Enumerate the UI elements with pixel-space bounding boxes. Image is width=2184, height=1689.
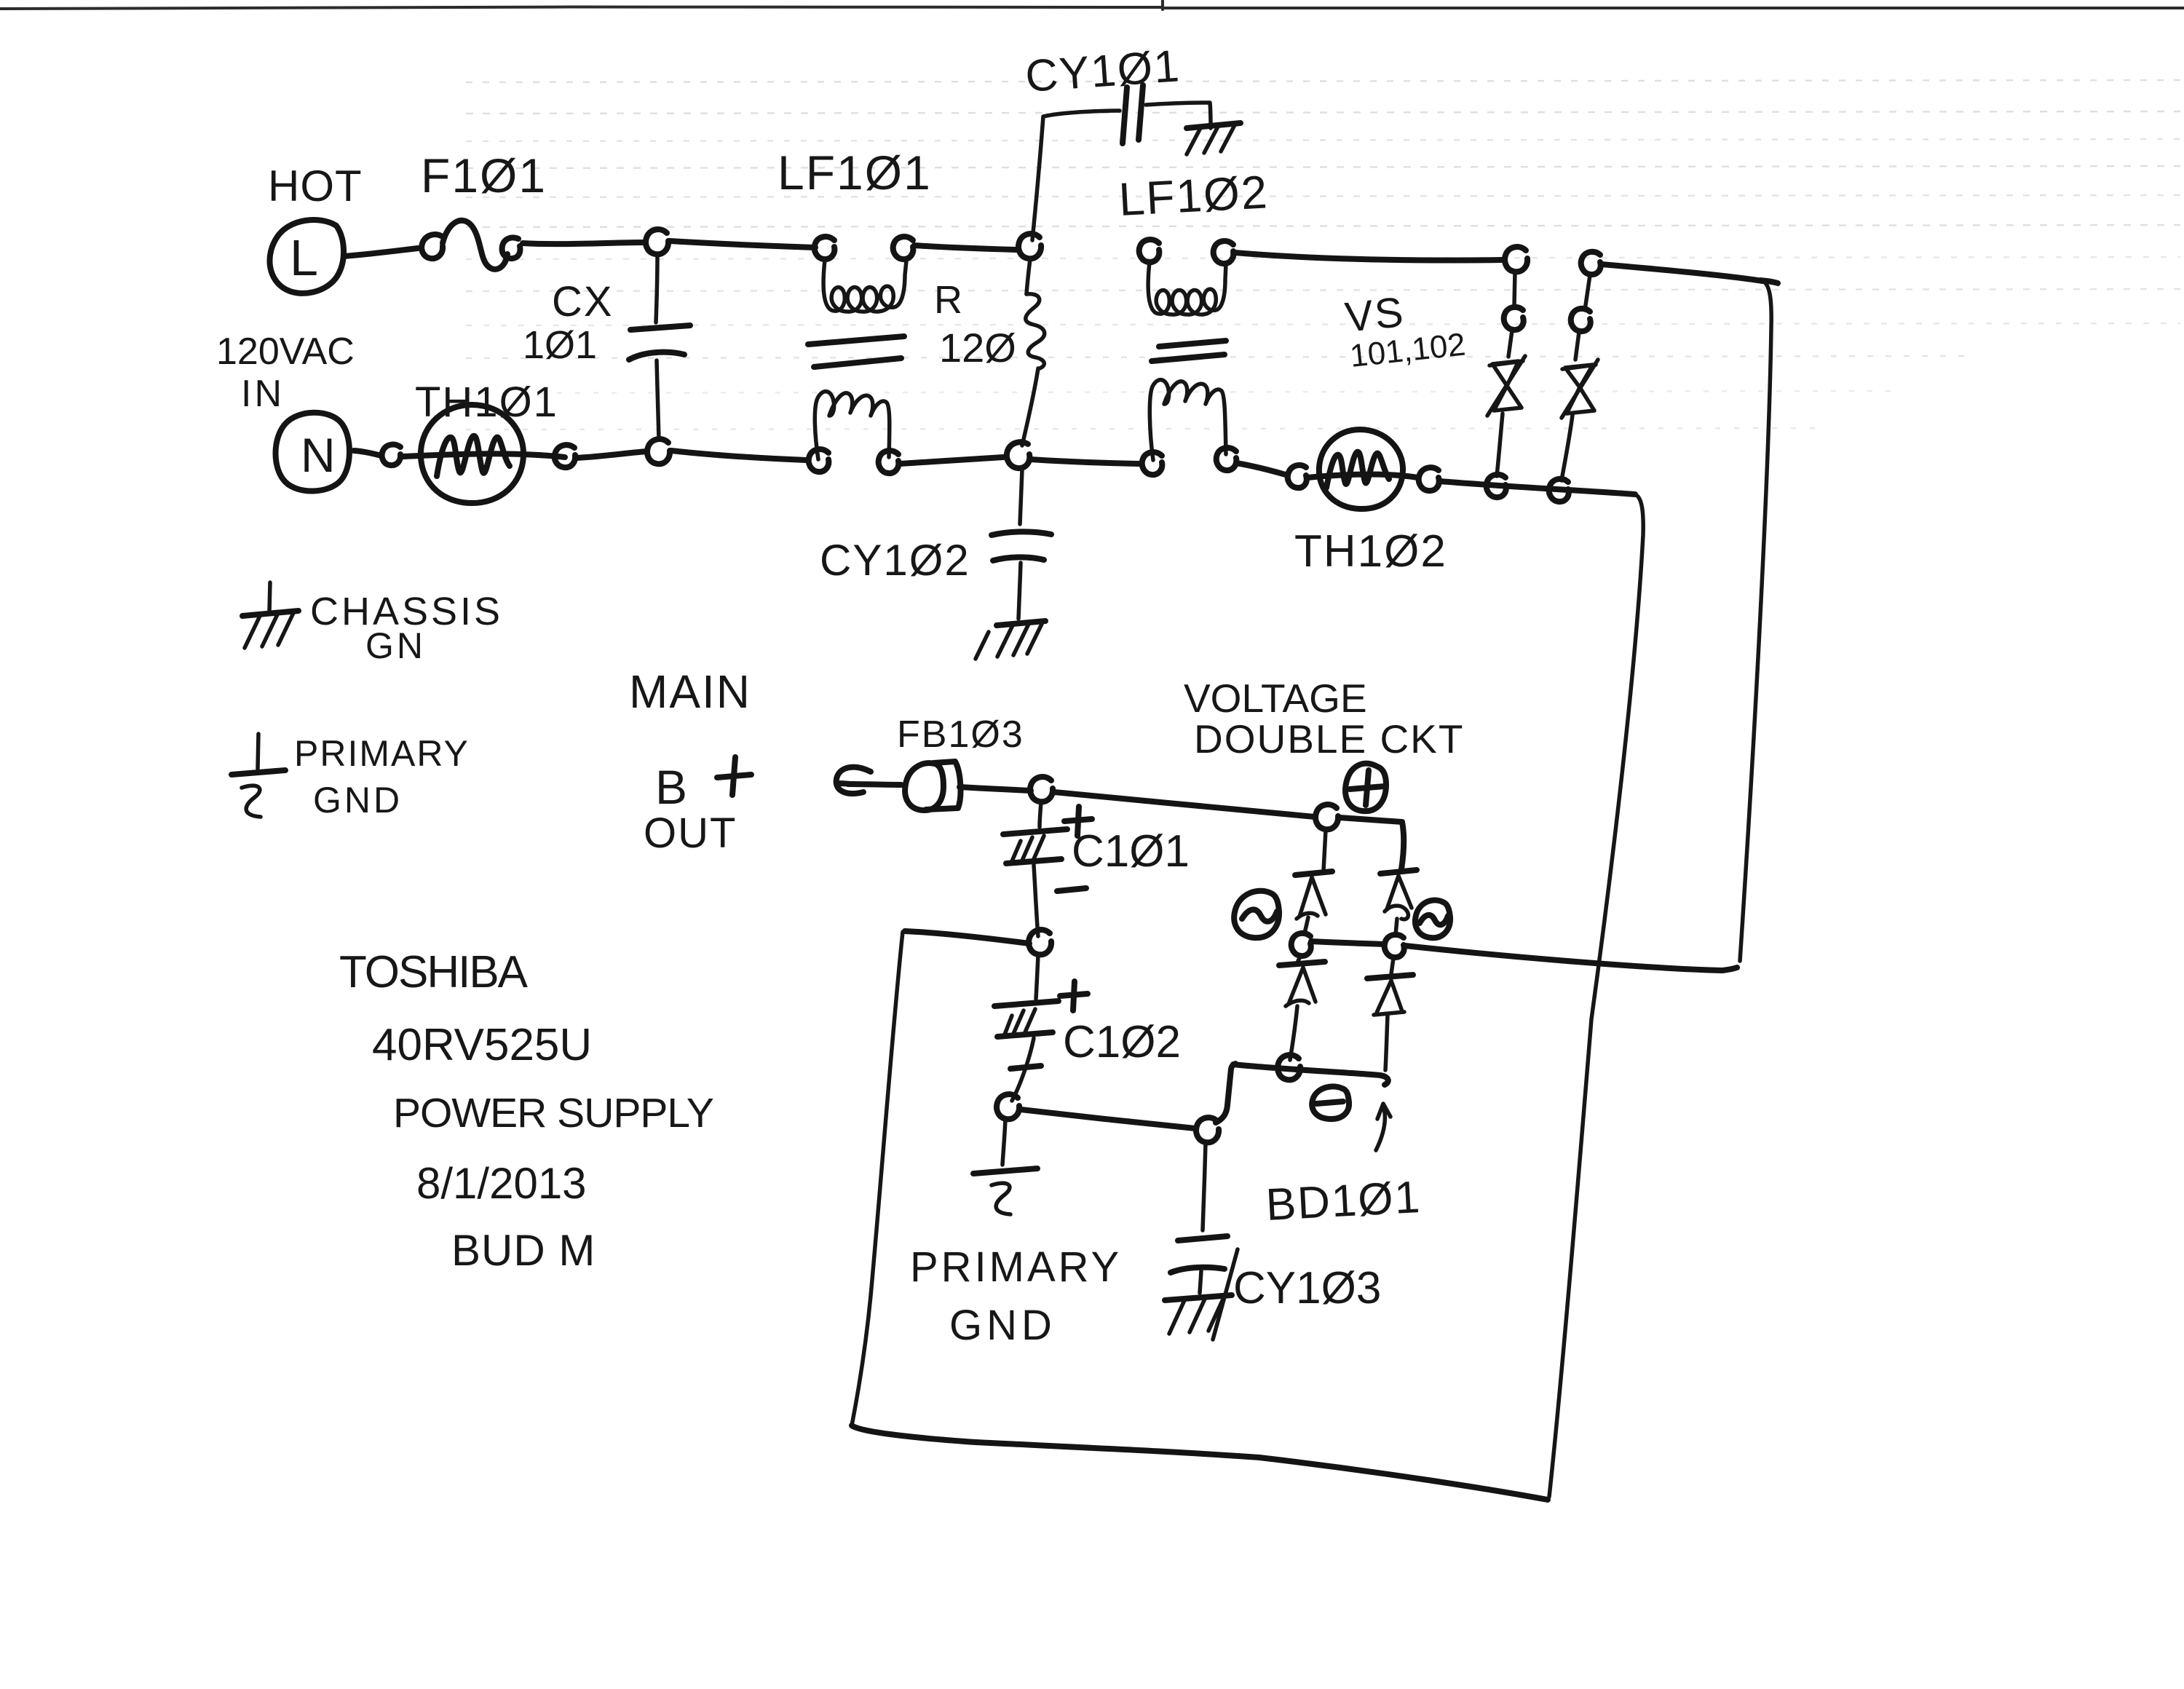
label OUT <box>644 810 737 857</box>
wire C102 node to CY103 node <box>1021 1109 1195 1128</box>
label POWER SUPPLY <box>393 1090 713 1136</box>
diode D1 top left <box>1295 871 1332 933</box>
label CY101 <box>1024 41 1182 102</box>
svg-text:GN: GN <box>365 625 426 666</box>
chassis ground CY103 <box>1165 1249 1238 1340</box>
wire hot descender right <box>1740 281 1771 961</box>
choke LF101 bottom winding <box>809 392 899 473</box>
wire midpoint to box left <box>905 931 1029 944</box>
svg-text:BUD M: BUD M <box>451 1226 596 1275</box>
label HOT <box>268 162 363 210</box>
label B <box>655 760 687 814</box>
wire top to corner right <box>1602 264 1778 283</box>
svg-text:IN: IN <box>241 373 285 415</box>
wire TH102 to corner <box>1440 481 1635 494</box>
label PRIMARY right <box>910 1243 1122 1291</box>
arrow BD101 <box>1376 1104 1390 1150</box>
label plus <box>717 757 751 795</box>
label R <box>934 278 962 322</box>
svg-text:TH1Ø2: TH1Ø2 <box>1294 526 1447 577</box>
choke LF102 bottom winding <box>1142 380 1237 475</box>
wire R bottom to LF102 <box>1031 459 1139 464</box>
wire between AC nodes <box>1311 941 1385 944</box>
label LF101 <box>778 146 932 199</box>
label DOUBLE CKT <box>1194 716 1464 762</box>
primary ground C102 <box>973 1120 1037 1214</box>
node VS102 top <box>1581 252 1601 274</box>
node before TH102 <box>1288 465 1307 488</box>
label CY103 <box>1233 1263 1381 1313</box>
diode D2 bottom left <box>1279 957 1325 1060</box>
svg-text:CY1Ø2: CY1Ø2 <box>820 536 970 585</box>
capacitor CX101 <box>629 256 690 440</box>
label circled plus <box>1345 764 1386 811</box>
node AC right <box>1385 935 1404 957</box>
node VS101 top <box>1505 247 1527 272</box>
chassis ground CY101 <box>1187 123 1241 154</box>
label CX <box>552 278 614 325</box>
svg-text:B: B <box>655 760 687 814</box>
label circled minus <box>1312 1086 1349 1119</box>
svg-text:LF1Ø1: LF1Ø1 <box>778 146 932 199</box>
wire TH101 to CX bottom <box>576 451 646 458</box>
label PRIMARY left <box>294 733 470 774</box>
wire CX bottom to LF101 <box>671 451 807 460</box>
wire AC to bridge <box>1405 946 1737 970</box>
label VOLTAGE <box>1184 676 1367 721</box>
label GN <box>365 625 426 666</box>
node after TH101 <box>555 445 575 467</box>
node VS101 bottom <box>1487 475 1506 497</box>
svg-text:FB1Ø3: FB1Ø3 <box>897 713 1024 756</box>
label CY102 <box>820 536 970 585</box>
label C102 minus <box>1010 1066 1041 1069</box>
label C102 <box>1063 1017 1181 1067</box>
svg-text:N: N <box>301 428 336 482</box>
node C101 top <box>1030 777 1053 802</box>
wire plus node to left branch <box>1324 830 1326 871</box>
resistor R120 <box>1022 259 1045 446</box>
capacitor CY102 <box>992 470 1051 619</box>
wire LF102 top to VS nodes <box>1235 253 1503 261</box>
scan noise bands <box>466 80 2180 430</box>
label LF102 <box>1117 165 1270 226</box>
node C102 bottom <box>997 1094 1019 1119</box>
svg-text:PRIMARY: PRIMARY <box>910 1243 1122 1291</box>
label GND left <box>313 780 403 820</box>
svg-text:L: L <box>290 229 318 286</box>
svg-text:12Ø: 12Ø <box>939 325 1016 371</box>
svg-text:F1Ø1: F1Ø1 <box>421 149 547 202</box>
label circled tilde right <box>1415 900 1450 938</box>
label N <box>301 428 336 482</box>
wire bead to C101 node <box>960 787 1031 791</box>
capacitor CY101 <box>1032 85 1211 240</box>
primary ground left <box>232 734 285 817</box>
label BD101 <box>1265 1172 1423 1230</box>
label 8/1/2013 <box>416 1159 587 1208</box>
wire arrow to bead <box>848 784 901 785</box>
capacitor C101 <box>1003 802 1067 936</box>
svg-text:OUT: OUT <box>644 810 737 857</box>
chassis ground CY102 <box>976 621 1045 659</box>
label C102 plus <box>1060 981 1088 1010</box>
label GND right <box>949 1302 1056 1349</box>
thermistor TH101 <box>403 405 565 503</box>
wire plus node corner to right branch <box>1340 818 1404 869</box>
label TH102 <box>1294 526 1447 577</box>
svg-text:LF1Ø2: LF1Ø2 <box>1117 165 1270 226</box>
wire neutral descender <box>1549 494 1643 1497</box>
label FB103 <box>897 713 1024 756</box>
node CX101 bottom <box>647 439 670 464</box>
label C101 plus <box>1064 807 1092 836</box>
scanner edge line <box>0 1 2184 9</box>
label circled tilde left <box>1234 891 1279 938</box>
terminal N <box>276 413 350 491</box>
svg-text:GND: GND <box>949 1302 1056 1349</box>
label C101 <box>1072 826 1190 877</box>
choke LF101 core <box>808 336 904 367</box>
node AC left <box>1291 933 1311 956</box>
label 120 <box>939 325 1016 371</box>
thermistor TH102 <box>1307 430 1418 509</box>
wire N to node <box>354 451 381 456</box>
svg-text:VOLTAGE: VOLTAGE <box>1184 676 1367 721</box>
svg-text:POWER SUPPLY: POWER SUPPLY <box>393 1090 713 1136</box>
node bridge bottom left <box>1278 1055 1300 1080</box>
svg-text:C1Ø1: C1Ø1 <box>1072 826 1190 877</box>
node CY103 top <box>1196 1118 1219 1142</box>
svg-text:TH1Ø1: TH1Ø1 <box>415 379 558 426</box>
svg-text:GND: GND <box>313 780 403 820</box>
wire bridge bottom step <box>1216 1064 1235 1123</box>
svg-text:120VAC: 120VAC <box>216 331 355 373</box>
node R120 top junction <box>1018 234 1041 258</box>
wire LF101 bottom to R bottom junction <box>900 457 1003 464</box>
choke LF101 top winding <box>815 237 914 312</box>
wire LF102 bottom to TH102 <box>1236 463 1286 475</box>
label 40RV525U <box>372 1020 592 1070</box>
svg-text:8/1/2013: 8/1/2013 <box>416 1159 587 1208</box>
node before TH101 <box>382 445 401 466</box>
ferrite bead FB103 <box>905 762 960 810</box>
diode D3 top right <box>1380 870 1417 935</box>
svg-text:40RV525U: 40RV525U <box>372 1020 592 1070</box>
svg-text:1Ø1: 1Ø1 <box>523 323 597 367</box>
svg-text:BD1Ø1: BD1Ø1 <box>1265 1172 1423 1230</box>
node VS102 bottom <box>1549 479 1569 502</box>
label F101 <box>421 149 547 202</box>
diode D4 bottom right <box>1367 958 1413 1070</box>
choke LF102 core <box>1152 341 1226 361</box>
svg-text:HOT: HOT <box>268 162 363 210</box>
terminal L <box>269 220 344 293</box>
wire box bottom edge <box>852 1425 1548 1500</box>
label CHASSIS <box>310 590 503 633</box>
wire node to bridge plus <box>1054 792 1315 817</box>
label 120VAC <box>216 331 355 373</box>
label IN <box>241 373 285 415</box>
wire LF101 to R junction <box>914 245 1016 250</box>
node C101 C102 midpoint <box>1029 930 1051 954</box>
svg-text:CY1Ø3: CY1Ø3 <box>1233 1263 1381 1313</box>
wire L to fuse <box>344 248 418 256</box>
label MAIN <box>629 665 751 718</box>
node bridge plus <box>1315 804 1338 829</box>
label VS <box>1343 288 1407 341</box>
label TOSHIBA <box>339 947 529 997</box>
svg-text:TOSHIBA: TOSHIBA <box>339 947 529 997</box>
svg-text:CX: CX <box>552 278 614 325</box>
node R120 bottom junction <box>1007 442 1029 468</box>
wire bridge bottom <box>1233 1064 1388 1085</box>
node CX101 top <box>646 229 668 254</box>
choke LF102 top winding <box>1139 240 1234 315</box>
varistor VS102 <box>1562 275 1598 480</box>
label TH101 <box>415 379 558 426</box>
svg-text:PRIMARY: PRIMARY <box>294 733 470 774</box>
label 101 <box>523 323 597 367</box>
wire box left edge <box>852 932 903 1425</box>
capacitor CY103 <box>1171 1143 1227 1293</box>
svg-text:R: R <box>934 278 962 322</box>
label 101,102 <box>1348 327 1467 374</box>
svg-text:DOUBLE CKT: DOUBLE CKT <box>1194 716 1464 762</box>
chassis ground left <box>242 582 298 648</box>
fuse F101 <box>422 221 520 269</box>
svg-text:C1Ø2: C1Ø2 <box>1063 1017 1181 1067</box>
label BUD M <box>451 1226 596 1275</box>
wire fuse to CX node <box>523 242 645 244</box>
label C101 minus <box>1057 888 1086 891</box>
wire B+ out arrow <box>836 767 871 794</box>
wire CX node to LF101 <box>670 241 815 248</box>
svg-text:MAIN: MAIN <box>629 665 751 718</box>
node after TH102 <box>1419 467 1439 491</box>
label L <box>290 229 318 286</box>
capacitor C102 <box>994 955 1059 1101</box>
varistor VS101 <box>1487 272 1525 476</box>
